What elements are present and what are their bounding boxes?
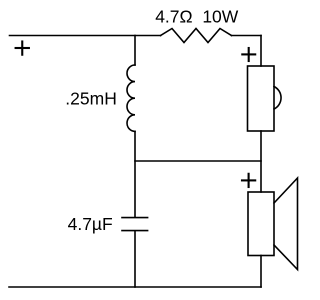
- resistor 4.7Ω 10W (zigzag): [161, 29, 232, 43]
- tweeter dome (arc): [274, 87, 281, 110]
- + woofer polarity mark: [242, 174, 255, 187]
- + input polarity mark (top left): [16, 42, 29, 55]
- + tweeter polarity mark: [242, 48, 255, 61]
- wire: tweeter bottom to woofer top (through middle rail junction): [260, 131, 262, 192]
- tweeter body (rectangle): [248, 66, 275, 131]
- wire: capacitor bottom to bottom rail: [134, 231, 136, 287]
- wire: top rail left segment: [10, 35, 161, 37]
- node A: junction stub from top rail down to inductor: [134, 36, 136, 66]
- wire: bottom rail: [9, 286, 261, 288]
- capacitor 4.7µF top plate: [122, 217, 148, 219]
- svg-text:4.7µF: 4.7µF: [68, 214, 113, 234]
- capacitor 4.7µF bottom plate: [122, 230, 148, 232]
- woofer cone (trapezoid): [274, 178, 298, 270]
- wire: top rail right segment: [232, 35, 262, 37]
- inductor .25mH (4 loops): [127, 65, 135, 131]
- wire: middle rail (node B to right branch): [135, 160, 261, 162]
- wire: woofer bottom to bottom rail: [260, 256, 262, 288]
- wire: inductor bottom to capacitor top (through node B): [134, 131, 136, 217]
- woofer body (rectangle): [248, 192, 274, 256]
- svg-text:.25mH: .25mH: [65, 89, 117, 109]
- svg-text:4.7Ω 10W: 4.7Ω 10W: [155, 7, 239, 27]
- wire: right branch top (top rail to tweeter): [260, 36, 262, 67]
